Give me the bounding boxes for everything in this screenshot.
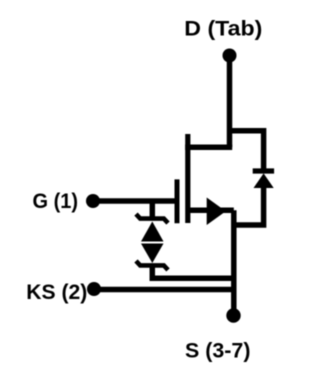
cathode bar with zener ticks [136,214,168,223]
wire: drain tap to MOSFET channel [185,145,232,151]
wire: body diode bottom to source rail [234,185,264,225]
node D terminal dot [223,49,237,63]
zener diode Z2 (lower, cathode down) [136,244,168,270]
svg-text:S (3-7): S (3-7) [185,339,251,362]
cathode bar [253,168,274,173]
source arrow [207,198,226,226]
diode D1 body diode [253,171,274,188]
wire: zener stack top stub from gate line [150,201,156,219]
wire: zener stack bottom stub and return to source rail [152,265,234,278]
wire: source tap from channel to source rail [188,207,234,213]
anode triangle pointing down [141,244,164,264]
svg-text:KS (2): KS (2) [26,281,87,304]
cathode bar with zener ticks [136,261,168,270]
node S terminal dot [226,308,240,322]
node KS terminal dot [87,282,101,296]
wire: gate lead from G terminal [93,198,177,204]
anode triangle [254,173,274,188]
channel bar [185,134,190,223]
zener diode Z1 (upper, cathode up) [136,214,168,241]
node G terminal dot [86,194,100,208]
gate bar [175,179,180,223]
wire: branch to body diode [230,131,264,171]
transistor Q1 N-channel MOSFET [177,134,226,225]
wire: source rail down to S terminal [231,210,237,315]
wire: Kelvin source lead from KS terminal [94,287,234,293]
svg-text:D (Tab): D (Tab) [184,17,262,40]
anode triangle pointing up [141,222,164,242]
svg-text:G (1): G (1) [33,190,79,213]
wire: drain lead from D terminal down [227,56,233,148]
